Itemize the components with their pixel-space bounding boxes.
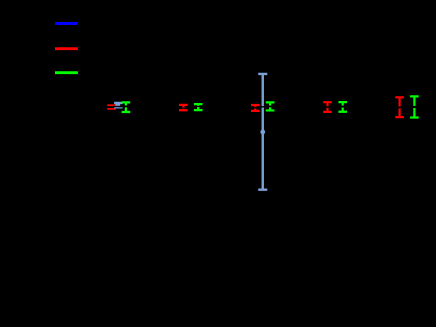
notch on green c4 bbox=[340, 106, 345, 108]
errorbar green c4 bbox=[338, 102, 347, 112]
notch on red c4 bbox=[325, 106, 330, 108]
errorbar red c4 bbox=[323, 102, 332, 112]
errorbar blue c3 (tall) bbox=[258, 74, 267, 190]
notch on blue c1 bbox=[113, 105, 123, 107]
notch on red c5 bbox=[397, 106, 402, 108]
errorbar green c1 bbox=[122, 102, 131, 112]
notch on green c1 bbox=[124, 105, 129, 107]
legend line green bbox=[55, 71, 78, 74]
notch on green c3 bbox=[268, 105, 273, 107]
errorbar red c1 bbox=[107, 105, 116, 108]
notch on blue c3 bbox=[260, 106, 265, 108]
errorbar red c5 bbox=[395, 97, 404, 117]
legend line red bbox=[55, 47, 78, 50]
errorbar green c3 bbox=[266, 102, 275, 110]
errorbar red c3 bbox=[251, 105, 260, 111]
notch on red c1 bbox=[107, 106, 117, 108]
notch on red c3 bbox=[253, 107, 258, 109]
notch on green c5 bbox=[412, 106, 417, 108]
notch on green c2 bbox=[196, 105, 201, 107]
notch on red c2 bbox=[181, 107, 186, 109]
errorbar red c2 bbox=[179, 105, 188, 110]
errorbar green c5 bbox=[410, 96, 419, 117]
legend line blue bbox=[55, 22, 78, 25]
errorbar green c2 bbox=[194, 104, 203, 110]
errorbar blue c1 bbox=[114, 102, 123, 107]
